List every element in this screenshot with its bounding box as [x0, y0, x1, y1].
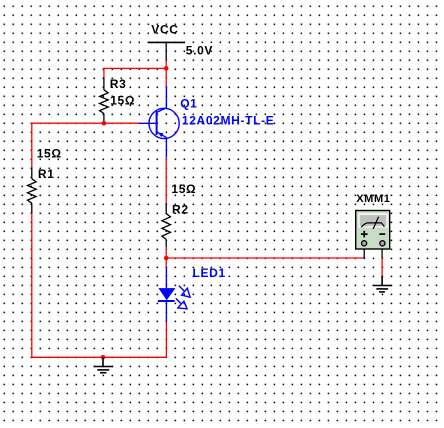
- wire VCC stem to node: [165, 61, 167, 87]
- svg-text:5.0V: 5.0V: [186, 43, 213, 57]
- wire base horizontal R1 to Q1: [32, 122, 139, 124]
- wire R1 bottom vertical: [31, 213, 33, 357]
- wire bottom horizontal: [31, 356, 166, 358]
- power VCC: [148, 23, 185, 61]
- resistor R1: [28, 167, 37, 213]
- resistor R2: [162, 203, 171, 247]
- wire R1 top vertical: [31, 123, 33, 168]
- ground GND2: [373, 276, 392, 292]
- svg-text:Q1: Q1: [180, 96, 197, 110]
- junction LED node: [164, 256, 169, 261]
- ground GND1: [94, 357, 113, 372]
- svg-text:15Ω: 15Ω: [171, 182, 196, 196]
- wire node to multimeter plus: [166, 257, 364, 259]
- junction ground node: [101, 355, 106, 360]
- svg-text:VCC: VCC: [151, 23, 178, 37]
- svg-text:R2: R2: [172, 202, 189, 216]
- svg-text:15Ω: 15Ω: [37, 147, 62, 161]
- wire Q1 emitter to R2: [165, 158, 167, 203]
- multimeter XMM1: [351, 205, 391, 258]
- svg-text:R1: R1: [38, 167, 55, 181]
- svg-text:R3: R3: [110, 77, 127, 91]
- junction R3 bottom node: [102, 121, 107, 126]
- resistor R3: [100, 78, 109, 124]
- wire R2 bottom to LED node: [165, 247, 167, 266]
- LED LED1: [158, 267, 190, 322]
- svg-text:LED1: LED1: [193, 266, 226, 280]
- transistor Q1: [139, 86, 179, 158]
- svg-text:15Ω: 15Ω: [110, 93, 135, 107]
- wire top horizontal VCC to R3: [104, 67, 167, 69]
- svg-text:XMM1: XMM1: [356, 193, 390, 205]
- junction VCC node: [164, 66, 169, 71]
- wire LED bottom vertical: [165, 322, 167, 358]
- svg-text:12A02MH-TL-E: 12A02MH-TL-E: [182, 113, 274, 127]
- wire R3 top: [103, 68, 105, 78]
- wire multimeter minus to ground: [381, 258, 383, 276]
